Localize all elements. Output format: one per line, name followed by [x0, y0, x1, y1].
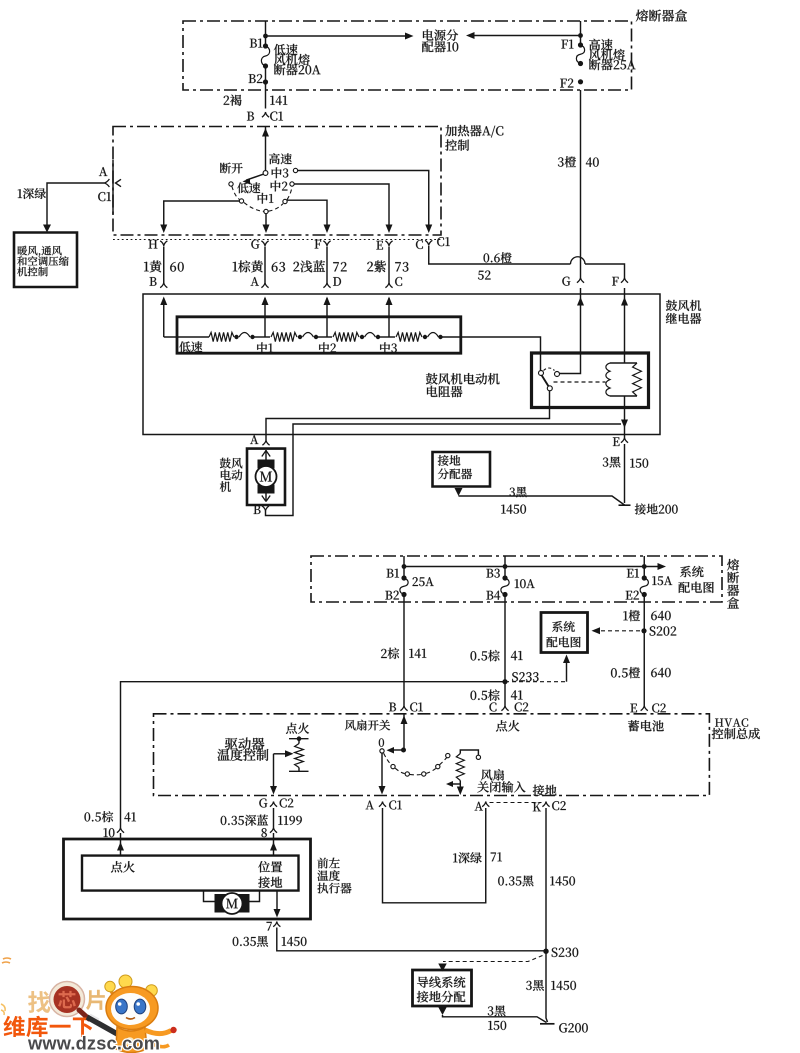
wire bottom contact to G [265, 214, 267, 226]
relay coil [610, 362, 637, 364]
wire relay-in B [163, 298, 165, 337]
wire 0.35黑 1450 (pin 7 to S230) [277, 928, 544, 951]
wire coil to E (ground side) [624, 396, 626, 438]
long wire S233 to actuator pin 10 [121, 682, 506, 828]
splice S233 [502, 679, 507, 684]
actuator motor wires [204, 891, 216, 902]
dashed link A to K [490, 802, 542, 804]
label 电源分配器10 [423, 29, 458, 40]
connector G (relay top) [577, 278, 584, 283]
label 鼓风机电动机 电阻器 [426, 373, 500, 385]
actuator motor [215, 894, 250, 913]
fan switch contact arc (dashed with contacts) [391, 764, 395, 768]
wire relay-in D [326, 298, 328, 337]
resistor chain wire [164, 336, 209, 338]
watermark mascot [87, 975, 177, 1053]
resistor 中3-end [396, 332, 422, 341]
label 断开 [220, 163, 243, 174]
wire F into relay to coil [624, 288, 626, 363]
watermark 找芯片 text [28, 991, 50, 1013]
actuator ground wire to pin 7 [276, 891, 278, 910]
driver temp control wiper arrow [274, 753, 290, 755]
wire 0.35黑 1450 (K/C2 to S230) [545, 808, 547, 952]
wire relay-in C [388, 298, 390, 337]
HVAC control assembly box HVAC控制总成 [154, 714, 710, 796]
motor internal wire bottom [265, 494, 267, 502]
label 前左温度执行器 [317, 858, 339, 869]
label 低速风机熔断器20A [274, 44, 298, 55]
ground G200 [540, 1023, 555, 1025]
connector A (blower motor) [262, 440, 269, 445]
label B2 [249, 74, 263, 83]
fan off input resistor hook [476, 755, 480, 759]
watermark 芯 in circle [58, 991, 76, 1008]
wire 3橙 40 (F2 to relay G) [580, 90, 582, 278]
wire G into relay to contact [560, 288, 581, 374]
label F1 [561, 40, 573, 49]
wire 3黑 1450 to ground 200 [459, 496, 625, 505]
blower relay box 鼓风机继电器 [143, 294, 660, 435]
driver temp control resistor bottom bar [289, 770, 309, 772]
switch arm to 断开 [246, 174, 263, 180]
box 导线系统接地分配 [413, 970, 472, 1006]
wire wiper to G/C2 [273, 754, 275, 787]
wire arrow from F1 to power distributor (right) [471, 35, 581, 37]
relay contact gap dashed arc [544, 368, 555, 371]
relay armature [542, 375, 549, 386]
driver temp control resistor [298, 739, 300, 744]
label 0.5棕 41 (actuator pin 10) [84, 811, 113, 822]
wire 0.35深蓝 1199 (G/C2 to actuator pin 8) [273, 808, 275, 828]
fuse 25A (B1-B2) [403, 556, 405, 578]
connector C [425, 240, 432, 245]
fuse box label 熔断器盒 [636, 10, 687, 22]
relay coil link dashed [554, 381, 606, 383]
wire 2浅蓝 72 (F to relay D) [326, 247, 328, 283]
blower motor resistor box 鼓风机电动机电阻器 [177, 317, 461, 353]
watermark 维库一下 orange text [3, 1016, 93, 1037]
wire resistor out to relay contact [441, 337, 541, 370]
wire B2 to box bottom [265, 66, 267, 109]
junction dots and hump 2 [298, 335, 302, 339]
wire 中3 contact to C [298, 171, 429, 227]
contact G (bottom) [264, 209, 268, 213]
relay inner box [532, 353, 649, 408]
label B1 [250, 39, 263, 48]
fuse 10A (B3-B4) [504, 556, 506, 578]
label 点火 (fan switch feed) [496, 720, 519, 731]
junction dots and hump 4 [423, 335, 427, 339]
box 暖风通风和空调压缩机控制 [14, 233, 77, 288]
system fuse box border 熔断器盒 (bottom) [311, 556, 722, 602]
blower motor box 鼓风电动机 [247, 449, 285, 505]
connector B (blower motor) [262, 506, 269, 511]
driver temp control resistor top bar [289, 738, 309, 740]
resistor 中1-中2 [271, 332, 297, 341]
label 鼓风电动机 [220, 458, 242, 469]
node dot below B2 [263, 79, 268, 84]
node B1 junction dot [263, 34, 268, 39]
arrow from ground distributor [455, 488, 463, 496]
relay moving contact [547, 386, 552, 391]
junction dots and hump 3 [360, 335, 364, 339]
wire 1深绿 71 loop (A/C1 to fan off input A) [383, 808, 486, 903]
wire 0.5棕 41 (B4 to S233) [504, 595, 506, 706]
motor M circle [256, 466, 277, 487]
fuse F25A 高速风机熔断器25A (F1-F2) [580, 21, 582, 45]
wire relay-in A [264, 298, 266, 337]
dashed wire S230 to wiring ground distributor [443, 956, 543, 962]
relay NC contact [539, 371, 544, 376]
splice S202 [641, 628, 646, 633]
label 1深绿 [18, 188, 46, 199]
node F2 dot [578, 79, 583, 84]
label 风扇开关 [345, 720, 390, 731]
fan off input annotation arrow [450, 783, 460, 785]
wire 中2 contact to E [294, 184, 389, 226]
ground 接地200 [619, 504, 631, 506]
fuse box vertical label 熔断器盒 [727, 559, 739, 571]
wire 1深绿 to HVAC compressor control [47, 183, 104, 226]
actuator inner box [82, 856, 299, 891]
fan switch common contact [380, 749, 384, 753]
label 驱动器温度控制 [225, 738, 264, 750]
connector F (relay top) [621, 278, 628, 283]
connector C/C2 (HVAC top) [501, 706, 508, 711]
switch dashed arc [232, 186, 292, 211]
label lower 0.5棕 41 [470, 689, 499, 700]
fuse F20A 低速风机熔断器20A (B1-B2) [263, 43, 268, 48]
motor brush top [258, 460, 275, 469]
connector E [385, 241, 392, 246]
label 接地 (HVAC bottom) [533, 785, 557, 796]
wire arrow to power distributor (left) [266, 35, 410, 37]
connector A (fan off input, below HVAC) [482, 802, 489, 807]
arrow below ground distribution box [438, 1007, 447, 1015]
contact 中3 [293, 168, 297, 172]
connector H [160, 241, 167, 246]
wire 3黑 150 (E to ground 200) [624, 444, 626, 503]
contact 低速 [239, 199, 243, 203]
connector B/C1 (HVAC top) [400, 706, 407, 711]
contact 中1 [283, 199, 287, 203]
switch pivot [263, 171, 268, 176]
arrow into ground distribution box [438, 964, 447, 972]
wire 中1 contact to F [287, 200, 327, 226]
label 蓄电池 [628, 720, 664, 731]
wire 2棕 141 (B2 to HVAC B/C1) [403, 595, 405, 706]
label 高速风机熔断器25A [589, 39, 612, 50]
watermark magnifier handle [79, 1010, 89, 1019]
label F2 [560, 79, 573, 88]
wire fan switch output to A/C1 [381, 753, 383, 786]
label 高速 [269, 153, 292, 164]
blower switch feed wire from B/C1 [265, 127, 267, 171]
front left temperature actuator box 前左温度执行器 [64, 839, 311, 919]
label 鼓风机继电器 [666, 300, 701, 311]
dashed wire S202 to 系统配电图 box [597, 630, 640, 632]
bus wire to 系统配电图 with arrow [404, 566, 662, 568]
wire 1棕黄 63 (G to relay A) [264, 247, 266, 283]
fuse box (top) border 熔断器盒 [183, 21, 632, 90]
label 风扇关闭输入 [481, 769, 504, 780]
resistor 中2-中3 [333, 332, 359, 341]
wire 3黑 150 (box to G200) [443, 1015, 547, 1023]
resistor 低速-中1 [209, 332, 234, 341]
wire 1橙 640 (E2 to S202) [643, 595, 645, 706]
wire pin10 into inner box 点火 [120, 833, 122, 856]
connector K/C2 (below HVAC) [542, 802, 549, 807]
motor brush bottom [258, 485, 275, 494]
motor internal wire top [265, 450, 267, 460]
fan switch arrow to common [392, 749, 404, 751]
connector F [323, 241, 330, 246]
label 接地 (actuator) [258, 877, 282, 888]
fuse 15A (E1-E2) [643, 556, 645, 578]
wire 2紫 73 (E to relay C) [388, 247, 390, 283]
contact 中2 [290, 182, 294, 186]
wire B1 feed from top border [265, 21, 267, 44]
connector G/C2 (HVAC bottom) [270, 802, 277, 807]
contact 断开 [229, 182, 233, 186]
wire 1黄 60 (H to relay B) [163, 247, 165, 283]
connector E (below relay) [621, 438, 628, 443]
heater A/C control box 加热器A/C控制 [113, 127, 441, 236]
watermark magnifier circle [50, 982, 85, 1017]
label 2褐 141 [224, 95, 242, 106]
fan switch feed wire from B/C1 [403, 714, 405, 750]
label 加热器A/C控制 [445, 125, 503, 138]
connector E/C2 (HVAC top) [641, 706, 648, 711]
wire armature to blower motor A [266, 391, 550, 440]
box 系统配电图 [541, 613, 588, 653]
wire 3黑 1450 (S230 down to G200) [546, 951, 548, 1022]
dashed wire S233 to 系统配电图 box [505, 681, 567, 683]
connector G [261, 241, 268, 246]
wire 低速 contact to H [164, 201, 239, 226]
watermark decorative marks [2, 958, 11, 963]
fan off input resistor 风扇关闭输入 [456, 754, 464, 781]
connector A/C1 (HVAC bottom) [379, 802, 386, 807]
label 系统配电图 (top right) [680, 566, 704, 577]
svg-text:www.dzsc.com: www.dzsc.com [27, 1034, 160, 1053]
wire 0.6橙 52 (C1 to relay F) with hop over 3橙 [429, 246, 571, 264]
connector pin 10 (actuator) [117, 828, 124, 833]
relay fixed contact [555, 372, 560, 377]
connector A/C1 on left border [112, 160, 114, 215]
connector pin 7 [273, 922, 280, 927]
fan switch junction dot [401, 748, 406, 753]
wire pin8 into inner box 位置 [273, 833, 275, 856]
label 点火 (driver temp control) [286, 723, 309, 734]
heater box connector row dotted line [113, 239, 441, 241]
splice S230 [543, 949, 548, 954]
node F1 junction dot [578, 33, 583, 38]
wire motor B to relay ground path [266, 424, 622, 516]
label HVAC控制总成 [715, 718, 748, 726]
ground distributor box 接地分配器 [433, 452, 491, 487]
junction dots and hump 1 [234, 335, 238, 339]
label 0.5橙 640 [611, 667, 640, 678]
connector pin 8 (actuator) [270, 828, 277, 833]
connector B/C1 fork [262, 112, 269, 117]
